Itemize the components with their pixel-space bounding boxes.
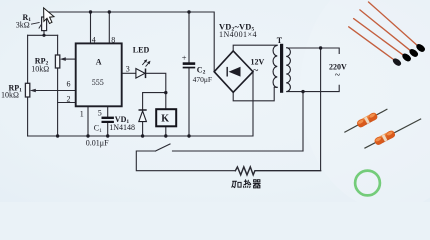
svg-text:~: ~ (253, 65, 259, 76)
svg-text:6: 6 (67, 80, 71, 89)
svg-text:K: K (161, 113, 169, 124)
svg-text:+: + (182, 53, 187, 63)
svg-text:3kΩ: 3kΩ (16, 20, 30, 29)
svg-text:3: 3 (126, 65, 130, 74)
svg-text:1N4148: 1N4148 (109, 123, 135, 132)
svg-text:10kΩ: 10kΩ (1, 90, 19, 99)
svg-text:0.01μF: 0.01μF (86, 139, 109, 148)
svg-text:470μF: 470μF (193, 75, 212, 84)
svg-text:T: T (277, 36, 283, 45)
svg-text:555: 555 (92, 78, 104, 87)
svg-text:10kΩ: 10kΩ (31, 65, 49, 74)
svg-text:A: A (96, 58, 102, 67)
svg-text:1: 1 (80, 110, 84, 119)
svg-text:LED: LED (133, 45, 150, 54)
svg-text:5: 5 (98, 108, 102, 117)
svg-text:2: 2 (67, 95, 71, 104)
svg-text:1N4001×4: 1N4001×4 (219, 30, 257, 39)
svg-text:8: 8 (111, 36, 115, 45)
svg-text:4: 4 (92, 36, 96, 45)
svg-text:~: ~ (335, 70, 341, 81)
